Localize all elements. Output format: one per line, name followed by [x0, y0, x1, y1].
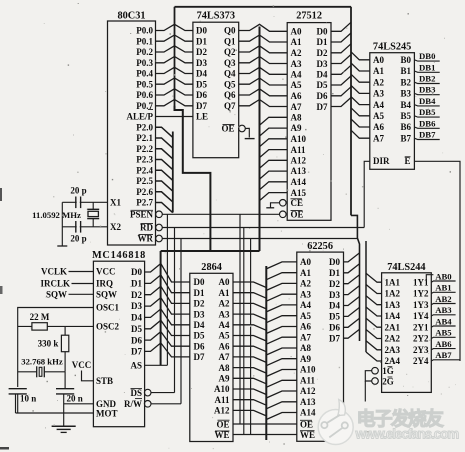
- svg-text:A5: A5: [373, 111, 384, 121]
- svg-text:E: E: [404, 156, 410, 166]
- svg-text:A5: A5: [300, 311, 311, 321]
- wire AS net vertical to U5 AS: [160, 251, 162, 365]
- svg-text:DB4: DB4: [419, 96, 436, 106]
- svg-text:P0.6: P0.6: [136, 90, 153, 100]
- wire U7 A10 bus entry: [266, 370, 297, 377]
- svg-text:A2: A2: [300, 279, 311, 289]
- svg-text:ALE/P: ALE/P: [126, 112, 153, 122]
- svg-text:AB7: AB7: [435, 350, 452, 360]
- svg-text:A10: A10: [300, 365, 316, 375]
- svg-text:D3: D3: [196, 58, 207, 68]
- svg-text:2A4: 2A4: [385, 356, 401, 366]
- svg-text:27512: 27512: [296, 11, 322, 22]
- svg-text:B1: B1: [400, 66, 411, 76]
- capacitor C4 20n: [64, 372, 66, 389]
- svg-text:A15: A15: [291, 188, 307, 198]
- svg-text:2Y2: 2Y2: [413, 334, 429, 344]
- wire PSEN branch down: [239, 214, 241, 424]
- svg-text:OE: OE: [291, 210, 304, 220]
- wire U8 2A4 bus entry: [366, 352, 382, 361]
- svg-text:1A1: 1A1: [385, 277, 401, 287]
- svg-text:330 k: 330 k: [38, 338, 59, 348]
- svg-text:D2: D2: [194, 299, 205, 309]
- svg-text:32.768 kHz: 32.768 kHz: [21, 357, 63, 367]
- svg-text:1Y4: 1Y4: [413, 311, 429, 321]
- svg-text:DB0: DB0: [419, 51, 436, 61]
- svg-text:AB2: AB2: [435, 294, 451, 304]
- wire U6 A5 bus entry: [233, 336, 266, 342]
- svg-text:D1: D1: [131, 279, 142, 289]
- watermark logo fin: [338, 400, 346, 416]
- wire WR branch2 down: [180, 239, 182, 404]
- U3 CE tie wire and tick: [271, 203, 280, 208]
- bus address vertical U2-U3: [259, 27, 261, 252]
- IC U8 74LS244 buffer box: [382, 273, 432, 393]
- IC U7 62256 SRAM box: [297, 252, 344, 441]
- wire U3 D6 bus entry: [331, 87, 351, 96]
- svg-text:DIR: DIR: [373, 156, 390, 166]
- svg-text:Q0: Q0: [224, 26, 236, 36]
- svg-text:A7: A7: [219, 352, 230, 362]
- wire U7 A7 bus entry: [266, 337, 297, 344]
- svg-text:R/W: R/W: [124, 399, 142, 409]
- U1 pin PSEN bubble: [156, 211, 163, 218]
- svg-text:D4: D4: [196, 69, 207, 79]
- svg-text:A7: A7: [373, 133, 384, 143]
- wire U6 A0 bus entry: [233, 282, 266, 288]
- svg-text:X2: X2: [110, 222, 121, 232]
- svg-text:D3: D3: [194, 309, 205, 319]
- svg-text:Q4: Q4: [224, 69, 236, 79]
- svg-text:2Y1: 2Y1: [413, 322, 429, 332]
- svg-text:A7: A7: [291, 102, 302, 112]
- wire U8 2Y4 to AB7: [431, 360, 460, 361]
- svg-text:D6: D6: [329, 323, 340, 333]
- svg-text:B4: B4: [400, 100, 411, 110]
- U2 OE bubble: [239, 125, 246, 132]
- wire U4 A7 bus entry: [351, 130, 370, 138]
- svg-text:2864: 2864: [201, 262, 222, 273]
- svg-text:2A1: 2A1: [385, 322, 401, 332]
- resistor R2 330k vertical: [64, 326, 66, 335]
- wire P2.1 bus entry: [156, 138, 173, 148]
- wire U8 1Y4 to AB3: [431, 315, 455, 316]
- svg-text:D4: D4: [131, 313, 142, 323]
- wire SQW: [69, 293, 94, 295]
- wire U8 1A3 bus entry: [366, 296, 382, 305]
- U5 R/W bubble: [144, 401, 151, 408]
- wire U8 1A4 bus entry: [366, 307, 382, 316]
- svg-text:A4: A4: [373, 100, 384, 110]
- wire U2 Q4 to U3 A4 chevron: [239, 67, 288, 74]
- svg-text:VCLK: VCLK: [41, 267, 67, 277]
- wire U6 A11 bus entry: [233, 400, 266, 406]
- svg-text:A10: A10: [214, 384, 230, 394]
- wire U8 2Y1 to AB4: [431, 326, 455, 327]
- svg-text:20 n: 20 n: [67, 394, 83, 404]
- svg-text:A12: A12: [214, 406, 230, 416]
- wire U7 A2 bus entry: [266, 283, 297, 290]
- wire ground rail to U5 MOT: [16, 412, 94, 414]
- svg-text:1A4: 1A4: [385, 311, 401, 321]
- wire U2 Q7 to U3 A7 chevron: [239, 100, 288, 107]
- wire RD branch2 down: [174, 228, 176, 393]
- svg-text:IRCLK: IRCLK: [40, 279, 70, 289]
- IC U6 2864 EEPROM box: [190, 273, 233, 441]
- svg-text:D7: D7: [196, 101, 207, 111]
- IC U1 80C31 microcontroller box: [108, 21, 156, 245]
- svg-text:A12: A12: [300, 386, 316, 396]
- svg-text:D3: D3: [131, 301, 142, 311]
- wire WE link U6 to U7: [233, 434, 297, 436]
- svg-text:P0.4: P0.4: [136, 69, 153, 79]
- svg-text:A0: A0: [219, 277, 230, 287]
- svg-text:VCC: VCC: [72, 360, 92, 370]
- svg-text:1Y3: 1Y3: [413, 300, 429, 310]
- wire U5 R/W route: [151, 403, 181, 405]
- svg-text:D0: D0: [194, 277, 205, 287]
- wire U4 A3 bus entry: [351, 85, 370, 93]
- U8 2G bubble: [372, 378, 379, 385]
- svg-text:D3: D3: [317, 59, 328, 69]
- svg-text:A8: A8: [300, 343, 311, 353]
- wire U3 A15 bus entry: [260, 193, 288, 201]
- svg-text:DB2: DB2: [419, 74, 435, 84]
- wire U7 D5 bus entry: [344, 307, 360, 316]
- U1 pin WR bubble: [156, 235, 163, 242]
- svg-text:A9: A9: [219, 374, 230, 384]
- wire AB0 lead corner: [426, 275, 433, 281]
- svg-text:WE: WE: [214, 430, 229, 440]
- U8 enable tie wire: [365, 371, 372, 381]
- wire U7 D0 bus entry: [344, 253, 360, 262]
- svg-text:D1: D1: [196, 37, 207, 47]
- svg-text:D6: D6: [131, 335, 142, 345]
- svg-text:DB6: DB6: [419, 118, 436, 128]
- wire U6 A4 bus entry: [233, 325, 266, 331]
- svg-text:DB5: DB5: [419, 107, 436, 117]
- wire U7 A0 bus entry: [266, 262, 297, 269]
- wire U8 1Y1 to AB0: [431, 281, 455, 282]
- wire X2 row: [62, 226, 107, 228]
- svg-text:OE: OE: [221, 124, 234, 134]
- svg-text:20 p: 20 p: [70, 186, 86, 196]
- wire P2.0 bus entry: [156, 127, 173, 137]
- svg-text:D0: D0: [317, 27, 328, 37]
- svg-text:AB4: AB4: [435, 316, 452, 326]
- svg-text:AB6: AB6: [435, 339, 452, 349]
- wire U7 D3 bus entry: [344, 286, 360, 295]
- wire P2.3 bus entry: [156, 160, 173, 170]
- svg-text:A1: A1: [373, 66, 384, 76]
- svg-text:A13: A13: [300, 397, 316, 407]
- svg-text:MC146818: MC146818: [92, 250, 146, 261]
- svg-text:AB3: AB3: [435, 305, 452, 315]
- wire U3 D3 bus entry: [331, 55, 351, 64]
- wire U8 2Y3 to AB6: [431, 349, 455, 350]
- wire U4 A4 bus entry: [351, 97, 370, 105]
- wire U7 D4 bus entry: [344, 297, 360, 306]
- svg-text:D0: D0: [196, 26, 207, 36]
- wire RD horizontal: [162, 227, 364, 229]
- wire P0.1 to U2 D1 chevron: [156, 35, 193, 41]
- svg-text:P0.0: P0.0: [136, 26, 153, 36]
- svg-text:A14: A14: [300, 408, 316, 418]
- svg-text:PSEN: PSEN: [130, 210, 154, 220]
- svg-text:20 p: 20 p: [70, 234, 86, 244]
- svg-text:A5: A5: [291, 80, 302, 90]
- svg-text:P0.5: P0.5: [136, 80, 153, 90]
- wire IRQ: [72, 283, 94, 285]
- svg-text:P0.1: P0.1: [136, 37, 153, 47]
- wire U6 A1 bus entry: [233, 293, 266, 299]
- svg-text:D7: D7: [131, 347, 142, 357]
- wire U8 2Y2 to AB5: [431, 337, 455, 338]
- wire U7 D2 bus entry: [344, 275, 360, 284]
- svg-text:D0: D0: [131, 267, 142, 277]
- wire U2 Q0 to U3 A0 chevron: [239, 24, 288, 31]
- svg-text:A7: A7: [300, 332, 311, 342]
- svg-text:D6: D6: [317, 91, 328, 101]
- wire U6 A12 bus entry: [233, 410, 266, 416]
- U2 OE tie-low wire and tick: [245, 128, 249, 137]
- svg-text:A8: A8: [291, 113, 302, 123]
- wire U4 A1 bus entry: [351, 63, 370, 71]
- svg-text:www.elecfans.com: www.elecfans.com: [355, 427, 460, 442]
- wire U2 Q6 to U3 A6 chevron: [239, 89, 288, 96]
- IC U2 74LS373 latch box: [193, 22, 239, 158]
- svg-text:A11: A11: [300, 376, 316, 386]
- wire U4 A0 bus entry: [351, 52, 370, 60]
- svg-text:AB5: AB5: [435, 328, 452, 338]
- wire U7 A13 bus entry: [266, 402, 297, 409]
- svg-text:A3: A3: [219, 309, 230, 319]
- svg-text:DB3: DB3: [419, 85, 436, 95]
- svg-text:DB7: DB7: [419, 130, 436, 140]
- wire U8 2A3 bus entry: [366, 341, 382, 350]
- wire U4 B6 to DB6: [414, 127, 439, 128]
- svg-text:74LS245: 74LS245: [373, 42, 411, 53]
- svg-text:GND: GND: [96, 399, 117, 409]
- U3 OE bubble: [280, 211, 287, 218]
- svg-text:22 M: 22 M: [30, 312, 50, 322]
- svg-text:D7: D7: [317, 102, 328, 112]
- svg-text:D5: D5: [329, 312, 340, 322]
- svg-text:2A3: 2A3: [385, 345, 401, 355]
- wire U7 A3 bus entry: [266, 294, 297, 301]
- IC U3 27512 EPROM box: [287, 23, 331, 221]
- svg-text:A2: A2: [219, 299, 230, 309]
- svg-text:Q5: Q5: [224, 80, 236, 90]
- wire U3 A11 bus entry: [260, 150, 288, 158]
- svg-text:STB: STB: [96, 376, 113, 386]
- wire U7 D1 bus entry: [344, 264, 360, 273]
- resistor R1 22M body: [32, 323, 47, 330]
- wire VCC to STB: [82, 371, 94, 381]
- svg-text:A2: A2: [373, 77, 384, 87]
- svg-text:A13: A13: [291, 166, 307, 176]
- wire P2.7 bus entry: [156, 203, 173, 213]
- wire U4 B4 to DB4: [414, 105, 439, 106]
- svg-text:1G: 1G: [382, 366, 394, 376]
- svg-text:B6: B6: [400, 122, 411, 132]
- svg-text:2Y3: 2Y3: [413, 345, 429, 355]
- wire U4 B2 to DB2: [414, 82, 439, 83]
- wire U5 DS stub: [151, 392, 175, 394]
- svg-text:DS: DS: [130, 388, 142, 398]
- svg-text:A3: A3: [373, 89, 384, 99]
- bus address to U8 vertical: [365, 241, 367, 352]
- svg-text:P2.4: P2.4: [136, 165, 153, 175]
- svg-text:Q2: Q2: [224, 47, 236, 57]
- svg-text:A1: A1: [300, 268, 311, 278]
- wire RD to U4 DIR vertical: [364, 161, 370, 227]
- wire U5 D3 to U6 D3: [145, 298, 190, 315]
- wire U7 A8 bus entry: [266, 348, 297, 355]
- IC U5 MC146818 RTC box: [93, 261, 144, 427]
- ground tick under rail: [57, 245, 67, 247]
- wire U6 A8 bus entry: [233, 368, 266, 374]
- svg-text:A6: A6: [300, 322, 311, 332]
- wire U7 D6 bus entry: [344, 318, 360, 327]
- wire U5 D4 to U6 D4: [145, 309, 190, 325]
- U8 1G bubble: [372, 367, 379, 374]
- wire U8 2A2 bus entry: [366, 330, 382, 339]
- wire U3 D1 bus entry: [331, 33, 351, 42]
- svg-text:OSC2: OSC2: [96, 322, 120, 332]
- svg-text:P2.6: P2.6: [136, 187, 153, 197]
- wire U3 D5 bus entry: [331, 76, 351, 85]
- wire U5 D2 to U6 D2: [145, 286, 190, 303]
- wire P0.6 to U2 D6 chevron: [156, 89, 193, 95]
- svg-text:A0: A0: [291, 27, 302, 37]
- svg-text:D2: D2: [317, 48, 328, 58]
- wire U4 B5 to DB5: [414, 116, 439, 117]
- wire U5 AS stub: [145, 364, 168, 366]
- bus P0 data vertical: [174, 7, 176, 109]
- wire U3 A12 bus entry: [260, 160, 288, 168]
- svg-text:74LS373: 74LS373: [197, 11, 235, 22]
- svg-text:D3: D3: [329, 290, 340, 300]
- wire U6 A3 bus entry: [233, 314, 266, 320]
- wire P0.7 to U2 D7 chevron: [156, 100, 193, 106]
- svg-text:Q7: Q7: [224, 101, 236, 111]
- svg-text:SQW: SQW: [96, 290, 117, 300]
- svg-text:X1: X1: [110, 198, 121, 208]
- wire U7 A5 bus entry: [266, 316, 297, 323]
- svg-text:A5: A5: [219, 331, 230, 341]
- wire U4 A6 bus entry: [351, 119, 370, 127]
- wire U6 A7 bus entry: [233, 357, 266, 363]
- svg-text:D7: D7: [329, 333, 340, 343]
- svg-text:D5: D5: [317, 80, 328, 90]
- wire U7 A12 bus entry: [266, 391, 297, 398]
- svg-text:1A2: 1A2: [385, 289, 401, 299]
- bus data vertical right of U3: [350, 7, 352, 216]
- svg-text:B2: B2: [400, 77, 411, 87]
- watermark logo glyph lines and dots: [321, 415, 348, 438]
- svg-text:OE: OE: [300, 420, 313, 430]
- wire U7 A14 bus entry: [266, 413, 297, 420]
- svg-text:A0: A0: [300, 257, 311, 267]
- wire U3 A13 bus entry: [260, 171, 288, 179]
- svg-text:LE: LE: [196, 112, 208, 122]
- wire WR horizontal: [162, 238, 357, 240]
- wire U7 A4 bus entry: [266, 305, 297, 312]
- wire X1 row: [62, 201, 107, 203]
- wire U7 D7 bus entry: [344, 329, 360, 338]
- capacitor C3 10n: [9, 388, 27, 390]
- svg-text:2G: 2G: [382, 376, 394, 386]
- svg-text:D2: D2: [329, 279, 340, 289]
- wire U5 D5 to U6 D5: [145, 320, 190, 335]
- svg-text:RD: RD: [140, 223, 153, 233]
- wire U5 D1 to U6 D1: [145, 275, 190, 293]
- wire U3 A9 bus entry: [260, 128, 288, 136]
- crystal Y2 32.768kHz: [18, 371, 37, 373]
- svg-text:Q6: Q6: [224, 90, 236, 100]
- svg-text:A1: A1: [219, 288, 230, 298]
- svg-text:P2.5: P2.5: [136, 176, 153, 186]
- wire crystal left rail: [61, 202, 63, 246]
- svg-text:B5: B5: [400, 111, 411, 121]
- wire U3 A8 bus entry: [260, 117, 288, 125]
- svg-text:P2.2: P2.2: [136, 144, 153, 154]
- wire RD branch down: [243, 228, 245, 435]
- svg-text:A12: A12: [291, 156, 307, 166]
- wire U6 A10 bus entry: [233, 389, 266, 395]
- U3 CE bubble: [280, 200, 287, 207]
- svg-text:A4: A4: [300, 300, 311, 310]
- wire PSEN control branch down left: [166, 214, 168, 365]
- svg-text:WR: WR: [138, 234, 154, 244]
- wire U3 A14 bus entry: [260, 182, 288, 190]
- svg-text:80C31: 80C31: [117, 11, 145, 22]
- svg-text:1A3: 1A3: [385, 300, 401, 310]
- svg-text:A4: A4: [291, 70, 302, 80]
- svg-text:11.0592 MHz: 11.0592 MHz: [32, 210, 81, 220]
- svg-text:A6: A6: [219, 341, 230, 351]
- svg-text:Q1: Q1: [224, 37, 236, 47]
- svg-text:74LS244: 74LS244: [387, 262, 425, 273]
- capacitor C1 20p top: [75, 197, 77, 209]
- svg-text:1Y2: 1Y2: [413, 289, 429, 299]
- wire U6 A6 bus entry: [233, 346, 266, 352]
- wire U5 D7 to U6 D7: [145, 343, 190, 357]
- svg-text:DB1: DB1: [419, 62, 435, 72]
- svg-text:P2.0: P2.0: [136, 122, 153, 132]
- svg-text:D6: D6: [194, 341, 205, 351]
- wire U3 D4 bus entry: [331, 65, 351, 74]
- svg-text:D1: D1: [317, 37, 328, 47]
- svg-text:D4: D4: [329, 301, 340, 311]
- wire data bus jog down (thick): [175, 106, 211, 251]
- U5 DS bubble: [144, 389, 151, 396]
- svg-text:AB1: AB1: [435, 283, 451, 293]
- svg-text:P0.2: P0.2: [136, 47, 153, 57]
- wire data bus jog: [351, 215, 360, 341]
- wire VCLK: [69, 271, 94, 273]
- wire U7 A11 bus entry: [266, 380, 297, 387]
- svg-text:OSC1: OSC1: [96, 303, 120, 313]
- wire OSC2 horizontal: [18, 325, 94, 327]
- wire U4 B7 to DB7: [414, 138, 439, 139]
- wire P2.6 bus entry: [156, 192, 173, 202]
- svg-text:B7: B7: [400, 133, 411, 143]
- wire P0.3 to U2 D3 chevron: [156, 57, 193, 63]
- wire U8 1Y2 to AB1: [431, 292, 455, 293]
- wire P2.5 bus entry: [156, 181, 173, 191]
